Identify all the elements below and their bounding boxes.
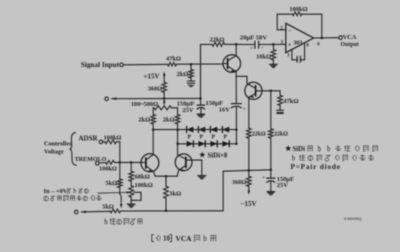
svg-text:47kΩ: 47kΩ xyxy=(166,56,181,63)
svg-text:In→+0V: In→+0V xyxy=(44,188,68,195)
svg-text:100kΩ: 100kΩ xyxy=(289,6,307,13)
capacitor 150uF 16V xyxy=(206,100,246,114)
resistor 360 bottom xyxy=(232,170,251,190)
wire down to 150uF 16V xyxy=(235,76,237,103)
wire pin2 stub xyxy=(277,14,286,29)
wire junction down to 2k xyxy=(190,64,192,69)
brace xyxy=(69,133,76,166)
svg-text:360Ω: 360Ω xyxy=(232,179,246,186)
resistor 10k to ground xyxy=(256,44,276,64)
mid rail terminal xyxy=(105,97,116,101)
diode D8 xyxy=(222,141,229,147)
wire lower rail y170 xyxy=(223,170,271,171)
svg-text:+: + xyxy=(288,43,292,49)
resistor 100k feedback xyxy=(277,6,322,38)
svg-text:100~500Ω: 100~500Ω xyxy=(131,101,158,108)
wire pot left end down xyxy=(152,108,155,115)
svg-text:301: 301 xyxy=(293,39,303,46)
node output junction xyxy=(321,37,324,40)
wire pot right end down xyxy=(171,108,177,115)
svg-text:TREMOLO: TREMOLO xyxy=(75,157,107,163)
resistor 2k input xyxy=(177,70,194,79)
svg-text:22kΩ: 22kΩ xyxy=(274,132,288,138)
capacitor below 2k input xyxy=(187,78,194,83)
svg-text:100kΩ: 100kΩ xyxy=(104,135,122,142)
resistor 22k top xyxy=(210,36,225,46)
svg-text:2kΩ: 2kΩ xyxy=(138,116,150,123)
transistor Q1 xyxy=(223,55,241,73)
wire Q1 emitter junction xyxy=(236,76,247,83)
svg-text:P=Pair diode: P=Pair diode xyxy=(291,163,341,171)
note SiDi line3 xyxy=(291,163,341,171)
branch 47k bypass xyxy=(271,91,280,96)
diode D2 xyxy=(198,127,205,133)
wire ADSR down xyxy=(116,142,119,163)
wire Q1 collector up xyxy=(235,44,237,55)
resistor 2k left xyxy=(138,115,155,125)
wiper 5k lower pot xyxy=(120,188,123,209)
svg-text:2kΩ: 2kΩ xyxy=(177,71,189,78)
svg-text:47kΩ: 47kΩ xyxy=(283,98,298,105)
svg-text:10: 10 xyxy=(163,236,170,243)
ground below 2k input xyxy=(189,85,194,86)
print code xyxy=(344,217,362,221)
note In 0V line1 xyxy=(44,188,89,195)
wire Q2 base junction down xyxy=(270,91,272,129)
svg-text:22kΩ: 22kΩ xyxy=(210,36,225,43)
wire common emitters xyxy=(155,175,177,177)
note In 0V line2 xyxy=(44,195,102,201)
ground below 100k pot xyxy=(128,200,135,207)
svg-text:25V: 25V xyxy=(277,182,288,189)
svg-text:SiDi: SiDi xyxy=(293,146,306,153)
node signal junction xyxy=(190,63,193,66)
transistor Q2 xyxy=(245,82,271,99)
-15V supply arrow xyxy=(240,190,256,208)
svg-text:360Ω: 360Ω xyxy=(148,86,162,93)
note SiDi line2 xyxy=(293,155,374,162)
wire Q1 emitter down xyxy=(235,72,237,77)
potentiometer 5k bottom xyxy=(102,204,120,213)
transistor Q3 xyxy=(141,154,159,176)
svg-text:5kΩ: 5kΩ xyxy=(102,204,114,211)
ground at Q4 base xyxy=(198,176,206,179)
diode D5 xyxy=(187,141,194,147)
potentiometer 100-500 wiper xyxy=(163,98,166,105)
wire top rail left vertical xyxy=(200,44,202,98)
ground below 150uF 25V right xyxy=(267,192,274,195)
svg-text:SiDi×8: SiDi×8 xyxy=(208,152,228,159)
svg-text:100kΩ: 100kΩ xyxy=(99,166,117,173)
svg-text:VCA: VCA xyxy=(343,34,357,41)
wire cap to op-amp pin3 xyxy=(259,43,286,45)
resistor 68k xyxy=(129,162,150,181)
ADSR input terminal xyxy=(78,134,102,143)
ground at pin3 xyxy=(270,64,277,67)
node common emitter xyxy=(165,175,168,178)
svg-text:P: P xyxy=(188,134,192,140)
diode D1 xyxy=(187,127,194,133)
wire signal input to 47k xyxy=(123,63,167,66)
resistor 22k right pair xyxy=(269,129,289,138)
compensation capacitor xyxy=(292,56,305,62)
wire diode row top xyxy=(153,129,236,131)
svg-text:Controlled: Controlled xyxy=(44,141,73,148)
wire 47k to Q1 base xyxy=(177,63,224,65)
wire 22k to cap xyxy=(225,43,254,45)
node Q2 base junction xyxy=(270,90,273,93)
svg-text:P: P xyxy=(200,134,204,140)
node diode left bottom xyxy=(176,143,179,146)
wire 2k-left to Q3 collector xyxy=(152,124,155,154)
wire 150uF16V to diodes xyxy=(235,106,237,143)
wire Q4 base to ground xyxy=(201,160,203,175)
transistor Q4 xyxy=(175,154,202,176)
svg-text:5kΩ: 5kΩ xyxy=(105,180,117,187)
diode D7 xyxy=(210,141,217,147)
resistor 100k ADSR xyxy=(103,135,122,144)
potentiometer 100k body xyxy=(129,181,153,197)
resistor 3k xyxy=(164,176,181,211)
node 3k bottom xyxy=(165,210,168,213)
wire TREMOLO to Q3 base xyxy=(114,161,141,163)
wire 22k right pair down xyxy=(270,138,272,170)
node ADSR-TREMOLO junction xyxy=(119,161,122,164)
svg-text:9-5600RQ: 9-5600RQ xyxy=(344,217,362,221)
capacitor 20uF coupling xyxy=(240,35,267,52)
svg-text:+15V: +15V xyxy=(143,73,159,81)
svg-text:+: + xyxy=(250,46,253,51)
svg-text:P: P xyxy=(212,134,216,140)
label controlled voltage xyxy=(44,141,73,156)
svg-text:100kΩ: 100kΩ xyxy=(135,182,153,189)
signal input terminal xyxy=(81,61,123,69)
svg-text:ADSR: ADSR xyxy=(78,134,98,142)
resistor 360 top xyxy=(148,82,167,98)
node diode left top xyxy=(176,128,179,131)
node diode right bottom xyxy=(235,143,238,146)
caption figure xyxy=(152,234,216,243)
diode D4 xyxy=(222,127,229,133)
resistor 5k upper xyxy=(105,162,122,187)
pot 100k bottom loop xyxy=(131,192,141,200)
+15V supply arrow xyxy=(143,72,165,83)
svg-text:P: P xyxy=(224,134,228,140)
svg-text:68kΩ: 68kΩ xyxy=(135,173,150,180)
resistor 100k TREMOLO xyxy=(99,161,117,173)
wire mid rail xyxy=(112,97,201,99)
resistor 22k left pair xyxy=(247,128,267,138)
svg-text:20µF 50V: 20µF 50V xyxy=(240,35,267,42)
diode D3 xyxy=(210,127,217,133)
node mid rail right corner xyxy=(199,97,202,100)
svg-text:Signal Input: Signal Input xyxy=(81,61,120,69)
svg-text:10kΩ: 10kΩ xyxy=(256,54,271,61)
TREMOLO input terminal xyxy=(75,157,107,165)
resistor 47k signal xyxy=(166,56,181,66)
op-amp U1 301 xyxy=(280,23,313,52)
resistor 2k right xyxy=(163,115,180,125)
VCA output terminal xyxy=(339,34,359,48)
note SiDi line1 xyxy=(285,145,378,153)
wire lower rail to bottom xyxy=(222,171,224,211)
capacitor 150uF 25V right xyxy=(262,170,294,192)
svg-text:VCA: VCA xyxy=(175,234,192,243)
wire bottom rail xyxy=(121,210,224,212)
label SiDi x8 xyxy=(199,152,228,160)
svg-text:22kΩ: 22kΩ xyxy=(252,132,266,138)
svg-text:3kΩ: 3kΩ xyxy=(169,191,181,198)
svg-text:−: − xyxy=(261,46,264,51)
pin8 stub xyxy=(305,43,310,60)
resistor 47k bypass xyxy=(278,95,299,105)
node lower rail cap xyxy=(270,169,273,172)
svg-text:−: − xyxy=(288,28,292,34)
capacitor 150uF 25V left xyxy=(177,98,205,114)
node lower rail 360 xyxy=(248,169,251,172)
svg-text:2kΩ: 2kΩ xyxy=(163,116,175,123)
wire op-amp output xyxy=(314,38,339,48)
svg-text:25V: 25V xyxy=(182,107,194,114)
svg-text:−15V: −15V xyxy=(240,200,256,208)
ground below 150uF 25V left xyxy=(197,114,204,117)
svg-text:+: + xyxy=(262,176,265,181)
wire 2k-right down xyxy=(177,124,179,155)
pin1 stub xyxy=(287,50,292,60)
wiper leader 100k pot xyxy=(98,191,131,193)
label input sensitivity xyxy=(105,218,142,224)
node 68k junction xyxy=(130,161,133,164)
wire top rail left corner xyxy=(201,43,213,45)
svg-text:Output: Output xyxy=(341,42,359,48)
node mid rail +15V junction xyxy=(163,97,166,100)
wire diode row bottom xyxy=(178,143,237,145)
wire Q2 emitter down xyxy=(248,97,250,128)
bottom pot terminal xyxy=(74,210,110,214)
node pin3 junction xyxy=(272,43,275,46)
potentiometer 100-500 body xyxy=(131,101,172,110)
capacitor below 47k xyxy=(277,105,284,113)
P labels xyxy=(188,134,228,140)
svg-text:16V: 16V xyxy=(219,107,231,114)
node diode right top xyxy=(235,128,238,131)
node Q1 collector junction xyxy=(235,43,238,46)
wire 22k left pair down xyxy=(248,138,250,170)
svg-text:Voltage: Voltage xyxy=(44,149,64,156)
diode D6 xyxy=(198,141,205,147)
svg-text:+: + xyxy=(243,107,246,112)
